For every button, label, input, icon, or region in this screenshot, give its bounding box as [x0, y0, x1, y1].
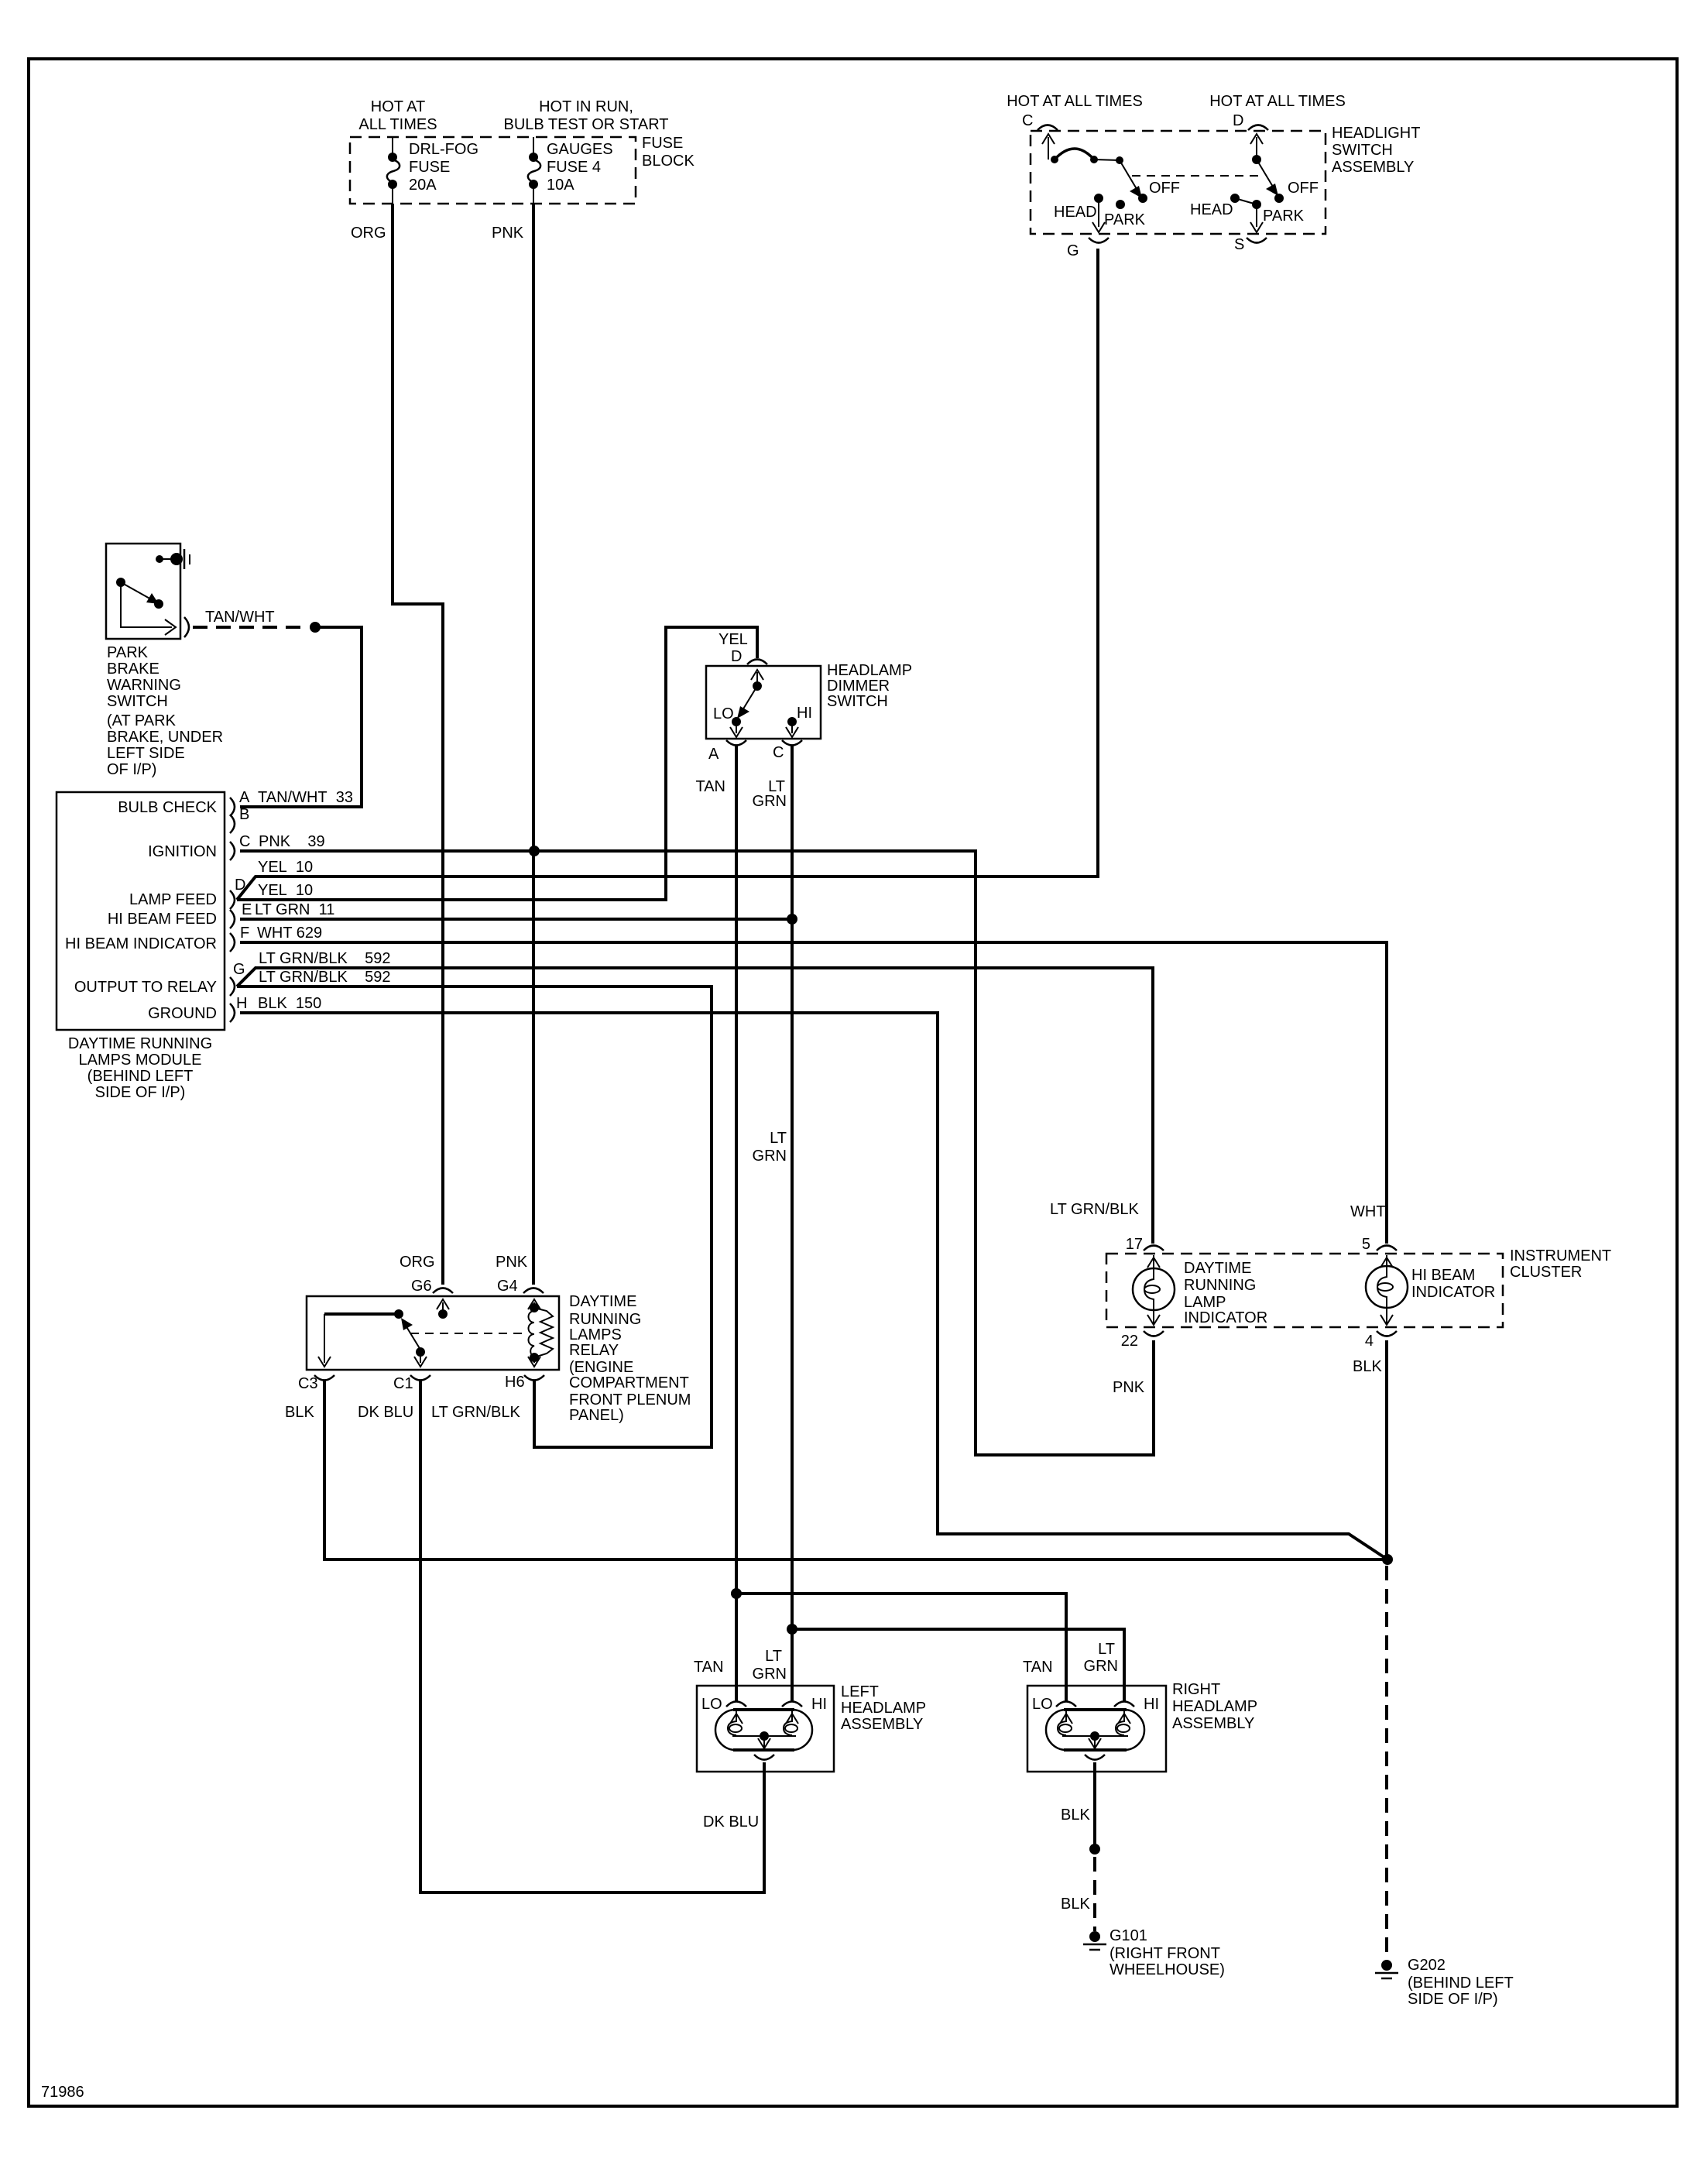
module name label	[68, 1035, 212, 1101]
svg-text:(RIGHT FRONT: (RIGHT FRONT	[1110, 1945, 1220, 1962]
mechanical link dashed line	[1132, 175, 1260, 177]
wire label LT GRN (below dimmer)	[753, 778, 787, 810]
fuse block dashed box	[350, 137, 636, 204]
wire BLK relay C3 to ground splice	[324, 1381, 1383, 1559]
relay name label	[569, 1293, 691, 1424]
svg-text:PNK: PNK	[492, 225, 524, 242]
wire label LT GRN (left headlamp)	[753, 1648, 787, 1683]
svg-text:FUSE 4: FUSE 4	[547, 159, 601, 176]
power label HOT AT ALL TIMES (fuse 1)	[358, 98, 437, 133]
svg-text:CLUSTER: CLUSTER	[1510, 1264, 1582, 1281]
svg-text:SIDE OF I/P): SIDE OF I/P)	[95, 1084, 186, 1101]
svg-text:GRN: GRN	[1084, 1658, 1118, 1675]
svg-text:BRAKE: BRAKE	[107, 660, 159, 678]
svg-text:HEAD: HEAD	[1054, 204, 1097, 221]
headlamp dimmer switch box	[706, 666, 821, 739]
wire TAN/WHT dashed segment	[193, 626, 308, 629]
svg-text:ALL TIMES: ALL TIMES	[358, 116, 437, 133]
svg-text:ASSEMBLY: ASSEMBLY	[841, 1716, 923, 1733]
svg-text:C: C	[1022, 112, 1033, 129]
svg-text:HOT AT ALL TIMES: HOT AT ALL TIMES	[1209, 93, 1346, 110]
ground G202 label	[1408, 1957, 1514, 2008]
svg-text:PANEL): PANEL)	[569, 1407, 624, 1424]
svg-text:A: A	[239, 789, 250, 806]
junction BLK ground splice	[1382, 1554, 1393, 1565]
svg-text:HOT IN RUN,: HOT IN RUN,	[539, 98, 633, 115]
svg-text:10A: 10A	[547, 177, 574, 194]
svg-text:LT: LT	[765, 1648, 782, 1665]
svg-text:DAYTIME: DAYTIME	[569, 1293, 636, 1310]
svg-text:H: H	[236, 995, 247, 1012]
svg-text:SWITCH: SWITCH	[1332, 142, 1393, 159]
daytime running lamps relay box	[307, 1296, 559, 1370]
wire PNK module pin C to cluster pin 22	[240, 851, 1154, 1455]
svg-text:71986: 71986	[41, 2084, 84, 2101]
instrument cluster dashed box	[1106, 1254, 1503, 1327]
svg-text:GRN: GRN	[753, 1148, 787, 1165]
svg-text:DIMMER: DIMMER	[827, 678, 890, 695]
wire BLK cluster pin 4 to ground splice	[1385, 1340, 1388, 1561]
svg-text:C: C	[773, 744, 784, 761]
svg-text:G4: G4	[497, 1278, 518, 1295]
svg-text:G101: G101	[1110, 1927, 1147, 1944]
relay switch contacts	[318, 1299, 449, 1367]
headlight switch pin G connector	[1067, 238, 1109, 259]
module pin E connector	[230, 901, 252, 928]
svg-text:LAMP FEED: LAMP FEED	[129, 891, 217, 908]
svg-text:HEADLAMP: HEADLAMP	[827, 662, 912, 679]
svg-text:INDICATOR: INDICATOR	[1184, 1309, 1267, 1326]
svg-text:D: D	[1233, 112, 1243, 129]
svg-text:YEL 10: YEL 10	[258, 859, 313, 876]
park brake warning switch box	[106, 544, 180, 639]
svg-text:C1: C1	[393, 1375, 413, 1392]
fuse DRL-FOG FUSE 20A	[387, 137, 400, 204]
wire label LT GRN (mid run)	[753, 1130, 787, 1165]
svg-text:ORG: ORG	[400, 1254, 435, 1271]
svg-text:ASSEMBLY: ASSEMBLY	[1332, 159, 1414, 176]
svg-text:PNK: PNK	[496, 1254, 528, 1271]
svg-text:ASSEMBLY: ASSEMBLY	[1172, 1715, 1254, 1732]
wire YEL module pin D to headlight switch G	[237, 249, 1098, 900]
module pin H connector	[230, 995, 247, 1022]
cluster pin 17 connector	[1126, 1236, 1164, 1253]
module pin A connector	[230, 789, 250, 816]
left headlamp bottom connector	[754, 1755, 774, 1760]
svg-text:HI: HI	[797, 705, 812, 722]
svg-text:E: E	[242, 901, 252, 918]
svg-text:BLK: BLK	[285, 1404, 314, 1421]
headlight switch left half (park/head contacts)	[1042, 134, 1147, 232]
svg-text:LT GRN 11: LT GRN 11	[255, 901, 334, 918]
svg-text:HOT AT ALL TIMES: HOT AT ALL TIMES	[1007, 93, 1143, 110]
right headlamp assembly box	[1027, 1686, 1166, 1772]
svg-text:OF I/P): OF I/P)	[107, 761, 156, 778]
svg-text:PNK: PNK	[1113, 1379, 1145, 1396]
svg-text:GAUGES: GAUGES	[547, 141, 613, 158]
module pin F connector	[230, 925, 249, 952]
hi beam indicator label	[1411, 1267, 1495, 1301]
svg-text:LO: LO	[1032, 1696, 1053, 1713]
junction right headlamp ground splice	[1089, 1844, 1100, 1854]
junction LT GRN splice	[787, 1624, 797, 1635]
svg-text:LO: LO	[713, 705, 734, 722]
svg-text:HEADLAMP: HEADLAMP	[841, 1700, 926, 1717]
left headlamp bulb symbol	[715, 1710, 812, 1750]
svg-text:LT GRN/BLK 592: LT GRN/BLK 592	[259, 969, 390, 986]
svg-text:BULB TEST OR START: BULB TEST OR START	[503, 116, 668, 133]
svg-text:HI BEAM FEED: HI BEAM FEED	[108, 911, 217, 928]
svg-text:WHT: WHT	[1350, 1203, 1386, 1220]
fuse 2 value label	[547, 141, 613, 194]
junction TAN/WHT splice	[310, 622, 321, 633]
daytime running lamps module box	[57, 792, 225, 1030]
svg-text:LEFT SIDE: LEFT SIDE	[107, 745, 185, 762]
module pin G connector	[230, 961, 245, 996]
svg-text:HI: HI	[811, 1696, 827, 1713]
svg-text:BLOCK: BLOCK	[642, 153, 695, 170]
wire LT GRN/BLK module pin G to cluster pin 17	[237, 968, 1153, 1244]
headlight switch pin C connector	[1022, 112, 1058, 130]
svg-text:OFF: OFF	[1149, 180, 1180, 197]
svg-text:HEADLIGHT: HEADLIGHT	[1332, 125, 1420, 142]
svg-text:4: 4	[1365, 1333, 1374, 1350]
wire BLK module pin H to ground splice	[240, 1013, 1385, 1558]
relay pin H6 connector	[505, 1374, 544, 1391]
relay coil and resistor	[528, 1299, 553, 1367]
svg-text:(ENGINE: (ENGINE	[569, 1359, 633, 1376]
svg-text:RELAY: RELAY	[569, 1342, 619, 1359]
svg-text:G: G	[1067, 242, 1079, 259]
svg-text:LT: LT	[770, 1130, 787, 1147]
svg-text:WHEELHOUSE): WHEELHOUSE)	[1110, 1961, 1225, 1978]
svg-text:BRAKE, UNDER: BRAKE, UNDER	[107, 729, 223, 746]
svg-text:DAYTIME RUNNING: DAYTIME RUNNING	[68, 1035, 212, 1052]
module pin D connector	[230, 877, 245, 909]
svg-text:BLK 150: BLK 150	[258, 995, 321, 1012]
dimmer switch internal contacts	[730, 670, 798, 737]
svg-text:LT: LT	[1098, 1641, 1115, 1658]
svg-text:TAN/WHT: TAN/WHT	[205, 609, 275, 626]
cluster pin 4 connector	[1365, 1331, 1397, 1350]
svg-text:17: 17	[1126, 1236, 1143, 1253]
svg-text:LO: LO	[701, 1696, 722, 1713]
left headlamp name label	[841, 1683, 926, 1733]
svg-text:BLK: BLK	[1353, 1358, 1382, 1375]
svg-text:LAMPS MODULE: LAMPS MODULE	[79, 1052, 202, 1069]
module pin function labels	[65, 799, 218, 1022]
wire LT GRN branch to right headlamp HI	[792, 1629, 1124, 1701]
wire LT GRN dimmer C to left headlamp HI	[791, 746, 794, 1701]
svg-text:LT GRN/BLK: LT GRN/BLK	[431, 1404, 521, 1421]
left headlamp assembly box	[697, 1686, 834, 1772]
fuse 1 value label	[409, 141, 478, 194]
cluster pin 22 connector	[1121, 1331, 1164, 1350]
dimmer switch pin A connector	[708, 740, 746, 763]
svg-text:D: D	[731, 648, 742, 665]
svg-text:WARNING: WARNING	[107, 677, 181, 694]
svg-text:H6: H6	[505, 1374, 525, 1391]
svg-text:HOT AT: HOT AT	[371, 98, 425, 115]
wire TAN/WHT solid to module pin A	[240, 627, 362, 807]
dimmer switch name label	[827, 662, 912, 710]
headlight switch right half (park/head contacts)	[1230, 134, 1284, 232]
svg-text:TAN: TAN	[1023, 1659, 1053, 1676]
dimmer switch pin C connector	[773, 740, 802, 761]
svg-text:TAN/WHT 33: TAN/WHT 33	[258, 789, 353, 806]
svg-text:WHT 629: WHT 629	[257, 925, 322, 942]
relay pin C1 connector	[393, 1375, 430, 1392]
svg-text:OFF: OFF	[1288, 180, 1319, 197]
svg-text:SWITCH: SWITCH	[107, 693, 168, 710]
svg-text:S: S	[1234, 236, 1244, 253]
ground G101 label	[1110, 1927, 1225, 1978]
ground G101	[1083, 1931, 1106, 1950]
svg-text:SIDE OF I/P): SIDE OF I/P)	[1408, 1991, 1498, 2008]
headlight switch pin D connector	[1233, 112, 1268, 130]
junction TAN splice	[731, 1588, 742, 1599]
wire ORG fuse1 to relay G6	[393, 204, 443, 1285]
svg-text:ORG: ORG	[351, 225, 386, 242]
svg-text:HEAD: HEAD	[1190, 201, 1233, 218]
right headlamp LO connector	[1032, 1696, 1076, 1713]
svg-text:PARK: PARK	[1263, 208, 1305, 225]
relay pin G4 connector	[497, 1278, 544, 1295]
svg-text:20A: 20A	[409, 177, 437, 194]
fuse GAUGES FUSE 4 10A	[528, 137, 540, 204]
svg-text:GROUND: GROUND	[148, 1005, 217, 1022]
svg-text:FRONT PLENUM: FRONT PLENUM	[569, 1391, 691, 1408]
instrument cluster name label	[1510, 1247, 1611, 1281]
svg-text:GRN: GRN	[753, 1666, 787, 1683]
svg-text:LT GRN/BLK: LT GRN/BLK	[1050, 1201, 1140, 1218]
svg-text:DRL-FOG: DRL-FOG	[409, 141, 478, 158]
svg-text:LAMPS: LAMPS	[569, 1326, 622, 1343]
svg-text:PNK 39: PNK 39	[259, 833, 325, 850]
wire label LT GRN (right headlamp)	[1084, 1641, 1118, 1675]
svg-text:BULB CHECK: BULB CHECK	[118, 799, 217, 816]
left headlamp LO connector	[701, 1696, 746, 1713]
svg-text:22: 22	[1121, 1333, 1138, 1350]
svg-text:INSTRUMENT: INSTRUMENT	[1510, 1247, 1611, 1264]
headlight switch assembly dashed box	[1031, 131, 1326, 234]
svg-text:LAMP: LAMP	[1184, 1294, 1226, 1311]
svg-text:A: A	[708, 746, 719, 763]
svg-text:G: G	[233, 961, 245, 978]
wire TAN branch to right headlamp LO	[736, 1594, 1066, 1701]
svg-text:DK BLU: DK BLU	[358, 1404, 413, 1421]
wire YEL module pin D to dimmer switch D	[237, 627, 757, 900]
svg-text:YEL 10: YEL 10	[258, 882, 313, 899]
svg-text:B: B	[239, 806, 249, 823]
wire LT GRN module pin E to splice	[240, 918, 792, 921]
svg-text:(AT PARK: (AT PARK	[107, 712, 177, 729]
relay pin C3 connector	[298, 1375, 334, 1392]
svg-text:FUSE: FUSE	[642, 135, 683, 152]
svg-text:GRN: GRN	[753, 793, 787, 810]
svg-text:G6: G6	[411, 1278, 432, 1295]
daytime running lamp indicator label	[1184, 1260, 1267, 1326]
cluster pin 5 connector	[1362, 1236, 1397, 1253]
svg-text:FUSE: FUSE	[409, 159, 450, 176]
right headlamp HI connector	[1114, 1696, 1159, 1713]
svg-text:DK BLU: DK BLU	[703, 1813, 759, 1830]
svg-text:INDICATOR: INDICATOR	[1411, 1284, 1495, 1301]
daytime running lamp indicator bulb	[1133, 1255, 1175, 1325]
relay pin G6 connector	[411, 1278, 453, 1295]
right headlamp bulb symbol	[1046, 1710, 1144, 1750]
svg-text:(BEHIND LEFT: (BEHIND LEFT	[1408, 1975, 1514, 1992]
park brake switch name label	[107, 644, 223, 778]
right headlamp name label	[1172, 1681, 1257, 1732]
wire BLK dashed to G101	[1093, 1857, 1096, 1931]
headlight switch assembly name label	[1332, 125, 1420, 176]
svg-text:C: C	[239, 833, 250, 850]
wire BLK right headlamp to splice	[1093, 1762, 1096, 1846]
svg-text:RUNNING: RUNNING	[569, 1311, 641, 1328]
svg-text:COMPARTMENT: COMPARTMENT	[569, 1374, 689, 1391]
module pin B connector	[230, 806, 249, 833]
svg-text:HI BEAM INDICATOR: HI BEAM INDICATOR	[65, 935, 217, 952]
wire PNK fuse2 to relay G4	[532, 204, 535, 1285]
wire TAN dimmer A to left headlamp LO	[735, 746, 738, 1701]
ground G202	[1375, 1960, 1398, 1978]
svg-text:C3: C3	[298, 1375, 318, 1392]
svg-text:TAN: TAN	[694, 1659, 724, 1676]
svg-text:YEL: YEL	[719, 631, 748, 648]
wire WHT module pin F to cluster pin 5	[240, 942, 1387, 1244]
svg-text:BLK: BLK	[1061, 1806, 1090, 1824]
junction LT GRN hi-beam splice	[787, 914, 797, 925]
svg-text:G202: G202	[1408, 1957, 1446, 1974]
svg-text:HEADLAMP: HEADLAMP	[1172, 1698, 1257, 1715]
hi beam indicator bulb	[1366, 1255, 1408, 1325]
svg-text:RUNNING: RUNNING	[1184, 1277, 1256, 1294]
fuse block name label	[642, 135, 695, 170]
dimmer switch pin D connector	[731, 648, 767, 665]
wire BLK dashed to G202	[1385, 1566, 1388, 1960]
svg-text:(BEHIND LEFT: (BEHIND LEFT	[87, 1068, 194, 1085]
svg-text:HI BEAM: HI BEAM	[1411, 1267, 1475, 1284]
svg-text:IGNITION: IGNITION	[148, 843, 217, 860]
svg-text:OUTPUT TO RELAY: OUTPUT TO RELAY	[74, 979, 217, 996]
svg-text:TAN: TAN	[695, 778, 725, 795]
svg-text:LT GRN/BLK 592: LT GRN/BLK 592	[259, 950, 390, 967]
svg-text:BLK: BLK	[1061, 1896, 1090, 1913]
wire LT GRN/BLK module pin G to relay H6	[237, 986, 712, 1447]
svg-text:HI: HI	[1144, 1696, 1159, 1713]
svg-text:F: F	[240, 925, 249, 942]
svg-text:PARK: PARK	[107, 644, 149, 661]
right headlamp bottom connector	[1085, 1755, 1105, 1760]
svg-text:LEFT: LEFT	[841, 1683, 879, 1700]
park brake switch output connector	[184, 617, 189, 637]
left headlamp HI connector	[782, 1696, 827, 1713]
junction PNK ignition splice	[529, 846, 540, 856]
svg-text:SWITCH: SWITCH	[827, 693, 888, 710]
relay internal dashed link	[410, 1333, 528, 1334]
svg-text:PARK: PARK	[1104, 211, 1146, 228]
svg-text:DAYTIME: DAYTIME	[1184, 1260, 1251, 1277]
park brake switch internal contacts	[116, 549, 190, 635]
power label HOT IN RUN, BULB TEST OR START (fuse 2)	[503, 98, 668, 133]
headlight switch pin S connector	[1234, 236, 1267, 253]
module pin C connector	[230, 833, 250, 860]
svg-text:RIGHT: RIGHT	[1172, 1681, 1220, 1698]
svg-text:5: 5	[1362, 1236, 1370, 1253]
wire DK BLU relay C1 to left headlamp	[420, 1381, 764, 1892]
